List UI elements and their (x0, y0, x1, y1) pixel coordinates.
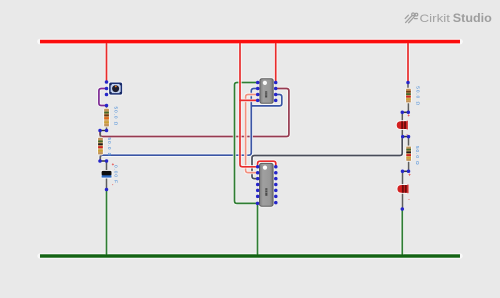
resistor R4 (right, bottom) (405, 146, 412, 162)
svg-text:Studio: Studio (453, 11, 492, 25)
node dots right column (401, 81, 411, 211)
power rail VCC re-stroke (over wire joints) (40, 40, 460, 43)
wire purple: pushbutton to R1 (99, 89, 107, 106)
wire green: capacitor to ground rail (left) (105, 190, 108, 255)
svg-text:50.0 Ω: 50.0 Ω (415, 146, 420, 166)
polarity marks D1 (406, 113, 410, 137)
node dots left column (98, 80, 108, 191)
wire slate: U2 pin to right LED column node (252, 137, 402, 179)
svg-text:0.00 F: 0.00 F (114, 165, 119, 184)
svg-text:50.0 Ω: 50.0 Ω (113, 107, 118, 127)
lead jog R3 to LED1 (402, 111, 408, 114)
wire red: VCC rail to pushbutton (105, 43, 108, 82)
wire red: VCC rail to 555 pin8 (274, 43, 277, 83)
lead jog R1 to R2 node (100, 129, 107, 132)
power rail VCC (red, top) (40, 39, 460, 45)
U2 pins (left and right) (256, 165, 278, 205)
svg-text:50.0 Ω: 50.0 Ω (416, 86, 421, 106)
IC U2 (counter, DIP-14) (258, 162, 274, 207)
wire salmon: 555 pin3 output to U2 clock pin (246, 95, 258, 173)
resistor R3 (right, top) (405, 88, 412, 104)
wire green: LED2 cathode to ground rail (right) (401, 209, 404, 255)
LED D2 (right, bottom) (397, 185, 408, 194)
resistor R2 (left, bottom) (97, 137, 104, 156)
lead jog R4 to LED2 (403, 170, 409, 173)
lead jog LED1 to R4 (403, 135, 409, 138)
wire green: 555 pin1 ground to U2 ground and rail (235, 83, 258, 255)
svg-text:-: - (408, 196, 410, 201)
svg-text:+: + (408, 173, 411, 178)
polarity marks D2 (408, 173, 411, 202)
capacitor C1 (left column) (101, 170, 113, 179)
wire red: VCC rail to R3 (right column) (406, 43, 409, 83)
svg-text:Cirkit: Cirkit (420, 13, 452, 25)
power rail GND re-stroke (over wire joints) (40, 254, 460, 257)
wire red: arc over U2 top, pin to pin (258, 161, 276, 167)
op IC U1 (555 timer, DIP-8) (259, 78, 275, 105)
wire blue: trigger/threshold net, 555 pin2 to cap node (100, 89, 282, 161)
svg-text:+: + (407, 113, 410, 118)
svg-text:+: + (112, 162, 115, 167)
pushbutton SW1 (108, 82, 123, 96)
wire maroon: 555 pin7 to R1/R2 junction (100, 89, 289, 137)
svg-text:-: - (112, 182, 114, 187)
lead jog R2 to capacitor (100, 159, 107, 162)
U1 pins (left and right) (256, 81, 278, 102)
polarity marks C1 (112, 162, 115, 187)
logo icon (405, 13, 418, 23)
wire red: VCC rail to 555 pin4 and U2 supply (240, 43, 258, 167)
component leads (100, 83, 408, 210)
resistor R1 (left, top) (103, 108, 110, 128)
power rail GND (green, bottom) (40, 253, 460, 258)
LED D1 (right, top) (397, 121, 408, 130)
svg-text:50.0 Ω: 50.0 Ω (107, 138, 112, 158)
